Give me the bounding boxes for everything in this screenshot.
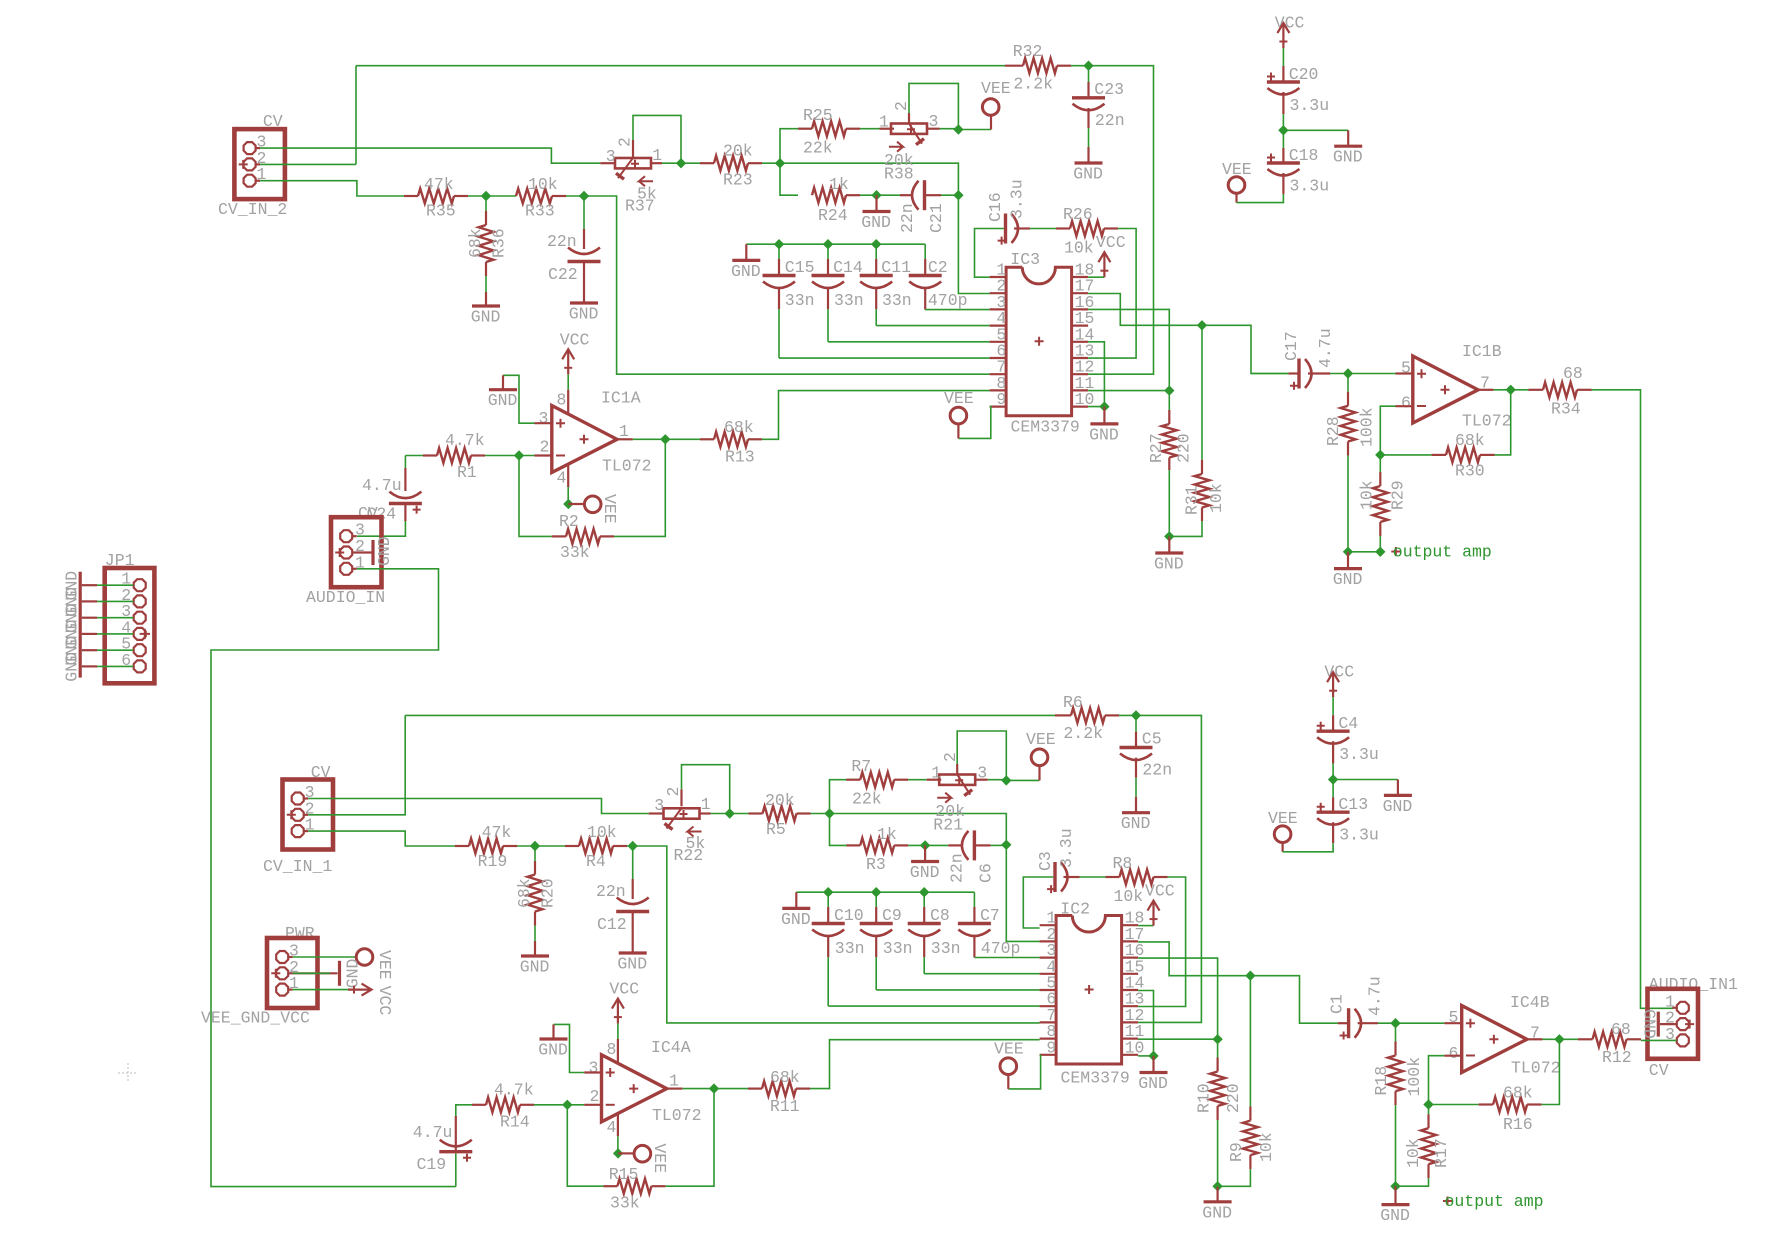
wire R26 to IC3 pin13	[1088, 229, 1136, 359]
potentiometer R22 5k	[664, 808, 700, 818]
wire C6 to column node	[991, 844, 1007, 846]
svg-text:C17: C17	[1282, 331, 1301, 361]
svg-text:GND: GND	[731, 262, 761, 281]
ground at IC2 pin10	[1152, 1056, 1154, 1073]
svg-text:3.3u: 3.3u	[1339, 745, 1379, 764]
svg-text:C10: C10	[834, 906, 864, 925]
svg-text:C8: C8	[930, 906, 950, 925]
ground below C23	[1087, 108, 1089, 128]
svg-text:GND: GND	[1089, 425, 1119, 444]
svg-text:C9: C9	[882, 906, 902, 925]
wires caps to IC3 pins 3-6	[925, 309, 989, 311]
svg-text:C19: C19	[417, 1155, 447, 1174]
svg-text:R9: R9	[1227, 1142, 1246, 1162]
svg-text:1: 1	[619, 422, 629, 441]
ground below C5	[1135, 758, 1137, 778]
svg-text:R15: R15	[609, 1165, 639, 1184]
supply VEE at R38	[958, 129, 991, 131]
potentiometer R21 20k	[908, 779, 927, 781]
svg-text:6: 6	[1401, 394, 1411, 413]
resistor R24 1k	[812, 188, 846, 203]
svg-text:VEE: VEE	[981, 79, 1011, 98]
svg-text:R33: R33	[525, 202, 555, 221]
svg-text:R24: R24	[818, 206, 848, 225]
svg-text:R2: R2	[559, 512, 579, 531]
svg-text:VCC: VCC	[375, 986, 394, 1016]
svg-text:R1: R1	[457, 463, 477, 482]
svg-text:VEE: VEE	[375, 950, 394, 980]
svg-text:R29: R29	[1389, 480, 1408, 510]
svg-text:VEE: VEE	[600, 494, 619, 524]
svg-text:3.3u: 3.3u	[1290, 177, 1330, 196]
svg-text:C12: C12	[597, 915, 627, 934]
svg-text:220: 220	[1175, 433, 1194, 463]
svg-text:R20: R20	[539, 878, 558, 908]
svg-text:22n: 22n	[1095, 111, 1125, 130]
supply VEE at IC2 pin9	[1008, 1055, 1040, 1089]
svg-text:2.2k: 2.2k	[1013, 75, 1053, 94]
origin cross mark	[118, 1063, 138, 1083]
resistor R30 68k	[1375, 450, 1385, 460]
svg-text:68k: 68k	[1503, 1084, 1533, 1103]
svg-text:R25: R25	[803, 106, 833, 125]
svg-text:R30: R30	[1455, 462, 1485, 481]
svg-text:GND: GND	[781, 910, 811, 929]
wire IC4A output to R11	[667, 1087, 683, 1089]
resistor R5 20k	[749, 812, 763, 814]
resistor R2 33k feedback	[519, 456, 552, 537]
capacitor C9 33n	[875, 892, 877, 907]
svg-text:R38: R38	[884, 165, 914, 184]
svg-text:5: 5	[1401, 359, 1411, 378]
svg-text:1: 1	[931, 764, 941, 783]
svg-text:4.7u: 4.7u	[362, 476, 402, 495]
svg-text:C23: C23	[1094, 80, 1124, 99]
resistor R25 22k	[780, 129, 812, 164]
svg-text:CEM3379: CEM3379	[1061, 1069, 1130, 1088]
svg-text:47k: 47k	[424, 175, 454, 194]
svg-text:4: 4	[607, 1118, 617, 1137]
wire IC3 pin17 to C17 node	[1088, 294, 1202, 326]
wire IC3 pin14 to pin10 ground	[1088, 342, 1104, 407]
svg-text:VCC: VCC	[1096, 233, 1126, 252]
svg-text:GND: GND	[1154, 555, 1184, 574]
svg-text:CV: CV	[1649, 1061, 1669, 1080]
wire R21 pin3 to VEE node	[988, 779, 1007, 781]
resistor R20 68k	[534, 846, 536, 861]
svg-text:22n: 22n	[898, 203, 917, 233]
svg-text:22k: 22k	[852, 790, 882, 809]
svg-text:2: 2	[540, 438, 550, 457]
wire CV_IN_1 pin2 to long rail	[308, 715, 405, 814]
potentiometer R38 20k	[860, 128, 880, 130]
ground right of node	[1333, 779, 1398, 781]
wire R38 wiper loop to VEE node	[908, 113, 910, 123]
svg-text:68: 68	[1563, 364, 1583, 383]
wire R38 pin3 to VEE node	[940, 128, 959, 130]
supply VEE at R21	[1006, 779, 1039, 781]
svg-text:100k: 100k	[1405, 1057, 1424, 1097]
wire column to IC3 pin2	[958, 195, 989, 293]
resistor R9 10k	[1249, 976, 1251, 1107]
svg-text:1k: 1k	[829, 175, 849, 194]
svg-text:4: 4	[557, 469, 567, 488]
capacitor C14 33n	[827, 244, 829, 259]
svg-text:3.3u: 3.3u	[1339, 826, 1379, 845]
resistor R35 47k	[404, 195, 418, 197]
capacitor C13 3.3u	[1332, 780, 1334, 798]
svg-text:3.3u: 3.3u	[1008, 179, 1027, 219]
ground rotated at PWR pin2	[289, 972, 338, 974]
label output amp (top)	[1391, 547, 1400, 556]
svg-text:GND: GND	[344, 958, 363, 988]
resistor R36 68k	[485, 196, 487, 211]
resistor R11 68k	[714, 1088, 748, 1090]
wire top rail to R32	[356, 65, 1005, 67]
svg-text:R28: R28	[1324, 416, 1343, 446]
svg-text:AUDIO_IN1: AUDIO_IN1	[1649, 975, 1738, 994]
svg-text:C6: C6	[977, 863, 996, 883]
svg-text:CEM3379: CEM3379	[1011, 418, 1080, 437]
resistor R3 1k	[860, 838, 894, 853]
supply VCC at IC1A pin8	[567, 390, 569, 414]
svg-text:33n: 33n	[931, 939, 961, 958]
wire IC2 pin16 to R10	[1138, 958, 1218, 1039]
svg-text:10k: 10k	[587, 823, 617, 842]
resistor R12 68	[1559, 1038, 1578, 1040]
wire R24 to GND node	[860, 194, 900, 196]
supply VEE at IC3 pin9	[958, 407, 990, 439]
svg-text:GND: GND	[1121, 814, 1151, 833]
wire IC2 pin11	[1138, 1038, 1218, 1040]
svg-text:R11: R11	[770, 1097, 800, 1116]
svg-text:33n: 33n	[785, 291, 815, 310]
svg-text:C16: C16	[986, 192, 1005, 222]
capacitor C6 22n	[948, 844, 961, 846]
resistor R14 4.7k	[472, 1104, 486, 1106]
wire IC4B output node	[1527, 1038, 1543, 1040]
wire IC3 pin16 to R27	[1088, 309, 1169, 390]
svg-text:R14: R14	[500, 1113, 530, 1132]
svg-text:68k: 68k	[466, 228, 485, 258]
svg-text:R32: R32	[1013, 42, 1043, 61]
capacitor C21 22n	[900, 194, 912, 196]
wire IC4B pin6 feedback	[1444, 1055, 1461, 1057]
ground below R28	[1347, 552, 1349, 569]
svg-text:GND: GND	[375, 536, 394, 566]
svg-text:4.7u: 4.7u	[413, 1123, 453, 1142]
svg-text:10k: 10k	[528, 175, 558, 194]
wire R32 node to IC3 pin12 column	[1071, 65, 1089, 67]
svg-text:GND: GND	[617, 955, 647, 974]
svg-text:20k: 20k	[723, 142, 753, 161]
svg-text:100k: 100k	[1358, 407, 1377, 447]
wire IC2 pin17 to C1 node	[1138, 942, 1250, 976]
svg-text:33n: 33n	[882, 291, 912, 310]
op-amp IC1B TL072	[1348, 373, 1396, 375]
resistor R29 10k	[1379, 455, 1381, 472]
svg-text:VCC: VCC	[1145, 882, 1175, 901]
wire R5 node to R3 line and C6 column	[811, 813, 830, 815]
svg-text:output amp: output amp	[1445, 1192, 1544, 1211]
svg-text:R18: R18	[1372, 1066, 1391, 1096]
resistor R31 10k	[1201, 325, 1203, 460]
svg-text:1k: 1k	[877, 825, 897, 844]
svg-text:22k: 22k	[803, 139, 833, 158]
svg-text:68k: 68k	[724, 418, 754, 437]
svg-text:3: 3	[539, 409, 549, 428]
wire R4 to C12 node and pin7 column	[627, 845, 648, 847]
svg-text:R3: R3	[866, 855, 886, 874]
svg-text:1: 1	[879, 113, 889, 132]
svg-text:9: 9	[996, 390, 1006, 409]
svg-text:33n: 33n	[883, 939, 913, 958]
capacitor C23 22n	[1088, 66, 1090, 82]
wire R23 node to R24 line and C21 column	[762, 162, 780, 164]
svg-text:R35: R35	[426, 202, 456, 221]
ground below R10	[1216, 1186, 1218, 1202]
svg-text:4.7u: 4.7u	[1366, 976, 1385, 1016]
svg-text:GND: GND	[471, 308, 501, 327]
supply VEE at IC4A pin4	[617, 1113, 619, 1136]
resistor R13 68k	[665, 438, 700, 440]
svg-text:VEE: VEE	[994, 1040, 1024, 1059]
resistor R34 68	[1511, 389, 1529, 391]
supply VCC at IC2 pin18	[1138, 925, 1153, 927]
svg-text:GND: GND	[1639, 1009, 1658, 1039]
resistor R18 100k	[1395, 1023, 1397, 1041]
wire C21 to column node	[941, 194, 958, 196]
svg-text:33n: 33n	[835, 939, 865, 958]
svg-text:TL072: TL072	[602, 457, 652, 476]
capacitor C10 33n	[796, 891, 974, 893]
svg-text:3: 3	[929, 112, 939, 131]
svg-text:C20: C20	[1289, 65, 1319, 84]
wire R3 to GND node	[908, 844, 948, 846]
svg-text:GND: GND	[1138, 1074, 1168, 1093]
wire R33 to C22 node	[566, 195, 584, 197]
resistor R27 220	[1168, 391, 1170, 410]
ground below R24 node	[875, 195, 877, 211]
supply VCC at IC3 pin18	[1088, 276, 1104, 278]
resistor R10 220	[1217, 1039, 1219, 1057]
svg-text:VCC: VCC	[560, 330, 590, 349]
svg-text:GND: GND	[1202, 1203, 1232, 1222]
svg-text:68k: 68k	[1455, 431, 1485, 450]
svg-text:GND: GND	[1073, 165, 1103, 184]
svg-text:IC1A: IC1A	[601, 389, 641, 408]
resistor R32 2.2k	[1005, 65, 1023, 67]
svg-text:GND: GND	[538, 1041, 568, 1060]
svg-text:C4: C4	[1338, 714, 1358, 733]
svg-text:22n: 22n	[1142, 761, 1172, 780]
svg-text:GND: GND	[1380, 1206, 1410, 1225]
svg-text:4.7u: 4.7u	[1316, 328, 1335, 368]
svg-text:C22: C22	[548, 265, 578, 284]
wire IC2 pin14 to pin10 ground	[1138, 991, 1153, 1056]
svg-text:2: 2	[664, 787, 683, 797]
supply VEE at IC1A pin4	[567, 464, 569, 487]
resistor R28 100k	[1347, 374, 1349, 392]
svg-text:C11: C11	[881, 258, 911, 277]
svg-text:C3: C3	[1036, 851, 1055, 871]
svg-text:VEE_GND_VCC: VEE_GND_VCC	[201, 1009, 310, 1028]
svg-text:R10: R10	[1195, 1083, 1214, 1113]
svg-text:3.3u: 3.3u	[1057, 828, 1076, 868]
resistor R17 10k	[1428, 1105, 1430, 1115]
svg-text:R26: R26	[1063, 205, 1093, 224]
wire IC3 pin11	[1088, 390, 1169, 392]
resistor R1 4.7k	[405, 455, 423, 457]
svg-text:68: 68	[1611, 1020, 1631, 1039]
svg-text:R17: R17	[1432, 1138, 1451, 1168]
svg-text:R31: R31	[1183, 485, 1202, 515]
svg-text:1: 1	[652, 146, 662, 165]
svg-text:GND: GND	[569, 305, 599, 324]
label output amp (bottom)	[1443, 1197, 1452, 1206]
wire column to IC2 pin2	[1006, 845, 1039, 942]
capacitor C8 33n	[923, 892, 925, 907]
svg-text:33k: 33k	[560, 543, 590, 562]
svg-text:R23: R23	[723, 171, 753, 190]
ground below R3 node	[924, 845, 926, 861]
svg-text:R5: R5	[766, 820, 786, 839]
svg-text:470p: 470p	[981, 939, 1021, 958]
capacitor C20 3.3u	[1282, 48, 1284, 66]
svg-text:R8: R8	[1113, 854, 1133, 873]
resistor R8 10k	[1064, 876, 1080, 878]
svg-text:2: 2	[892, 101, 911, 111]
ground rotated at AUDIO_IN1 pin2	[1660, 1023, 1677, 1025]
svg-text:3: 3	[606, 147, 616, 166]
capacitor C12 22n	[632, 846, 634, 879]
svg-text:3: 3	[977, 763, 987, 782]
svg-text:1: 1	[701, 795, 711, 814]
svg-text:10k: 10k	[1114, 887, 1144, 906]
svg-text:VCC: VCC	[609, 980, 639, 999]
svg-text:R6: R6	[1063, 693, 1083, 712]
svg-text:10: 10	[1125, 1038, 1145, 1057]
op-amp IC1A TL072	[552, 406, 617, 473]
capacitor C5 22n	[1135, 715, 1137, 731]
wire R37 to R23	[662, 162, 700, 164]
svg-text:CV_IN_1: CV_IN_1	[263, 857, 332, 876]
svg-text:R34: R34	[1551, 400, 1581, 419]
svg-text:GND: GND	[1333, 570, 1363, 589]
wire CV_IN_2 pin3 to R37 line	[260, 148, 600, 163]
wires caps to IC2 pins 3-6	[974, 957, 1039, 959]
svg-text:R12: R12	[1602, 1048, 1632, 1067]
svg-text:TL072: TL072	[652, 1106, 702, 1125]
ground below C22	[583, 263, 585, 288]
svg-text:VEE: VEE	[944, 389, 974, 408]
svg-text:C21: C21	[927, 203, 946, 233]
wire CV_IN_1 pin1 to R19	[308, 831, 455, 846]
svg-text:9: 9	[1046, 1038, 1056, 1057]
svg-text:AUDIO_IN: AUDIO_IN	[306, 588, 385, 607]
svg-text:TL072: TL072	[1511, 1059, 1561, 1078]
wire R22 wiper loop	[680, 789, 682, 806]
svg-text:GND: GND	[910, 863, 940, 882]
svg-text:2.2k: 2.2k	[1063, 724, 1103, 743]
svg-text:4.7k: 4.7k	[445, 431, 485, 450]
resistor R19 47k	[455, 845, 469, 847]
svg-text:20k: 20k	[765, 791, 795, 810]
op-amp IC4A TL072	[602, 1055, 667, 1122]
svg-text:R16: R16	[1503, 1115, 1533, 1134]
resistor R23 20k	[700, 162, 714, 164]
svg-text:GND: GND	[488, 391, 518, 410]
svg-text:C7: C7	[980, 906, 1000, 925]
resistor R33 10k	[516, 189, 552, 204]
svg-text:10k: 10k	[1404, 1138, 1423, 1168]
capacitor C22 22n	[583, 196, 585, 229]
ground below R36	[485, 292, 487, 306]
resistor R6 2.2k	[1055, 714, 1071, 716]
wire IC1A output to R13	[617, 438, 633, 440]
svg-text:5: 5	[1449, 1008, 1459, 1027]
svg-text:R13: R13	[725, 448, 755, 467]
capacitor C18 3.3u	[1282, 130, 1284, 148]
svg-text:IC4B: IC4B	[1510, 993, 1550, 1012]
svg-text:3: 3	[654, 796, 664, 815]
svg-text:IC4A: IC4A	[651, 1038, 691, 1057]
wire R22 to R5	[711, 813, 749, 815]
wire R13 to IC3 pin8	[762, 391, 990, 440]
capacitor C16 3.3u	[975, 229, 1004, 278]
wire CV_IN_2 pin1 to R35	[260, 181, 404, 196]
svg-text:R7: R7	[851, 757, 871, 776]
ground below R27	[1168, 536, 1170, 553]
wire R37 wiper loop	[632, 140, 634, 157]
svg-text:R19: R19	[478, 852, 508, 871]
op-amp IC4B TL072	[1396, 1022, 1445, 1024]
svg-text:R21: R21	[933, 816, 963, 835]
connector AUDIO_IN	[331, 517, 382, 587]
svg-text:22n: 22n	[948, 853, 967, 883]
svg-text:8: 8	[557, 391, 567, 410]
svg-text:C1: C1	[1328, 994, 1347, 1014]
svg-text:C5: C5	[1142, 730, 1162, 749]
wire R34 to AUDIO_IN1 pin1	[1592, 390, 1674, 1009]
capacitor C11 33n	[875, 244, 877, 259]
svg-text:C15: C15	[785, 258, 815, 277]
svg-text:10k: 10k	[1358, 480, 1377, 510]
svg-text:R27: R27	[1147, 433, 1166, 463]
svg-text:VEE: VEE	[1026, 730, 1056, 749]
svg-text:R36: R36	[490, 228, 509, 258]
svg-text:TL072: TL072	[1462, 412, 1512, 431]
capacitor C3 3.3u	[1023, 877, 1053, 928]
capacitor C15 33n	[746, 243, 925, 245]
resistor R26 10k	[1014, 227, 1030, 229]
svg-text:22n: 22n	[547, 232, 577, 251]
supply VEE at PWR pin3	[289, 956, 293, 958]
svg-text:2: 2	[616, 137, 635, 147]
wire IC1B pin6 feedback	[1396, 405, 1413, 407]
ground rotated at AUDIO_IN pin2	[353, 551, 372, 553]
svg-text:68k: 68k	[515, 878, 534, 908]
wire long rail to R6	[405, 714, 1055, 716]
svg-text:GND: GND	[861, 213, 891, 232]
resistor R4 10k	[579, 839, 613, 854]
svg-text:22n: 22n	[596, 882, 626, 901]
svg-text:IC1B: IC1B	[1462, 342, 1502, 361]
svg-text:CV_IN_2: CV_IN_2	[218, 200, 287, 219]
svg-text:C13: C13	[1338, 795, 1368, 814]
ground below R20	[534, 941, 536, 956]
svg-text:output amp: output amp	[1393, 543, 1492, 562]
